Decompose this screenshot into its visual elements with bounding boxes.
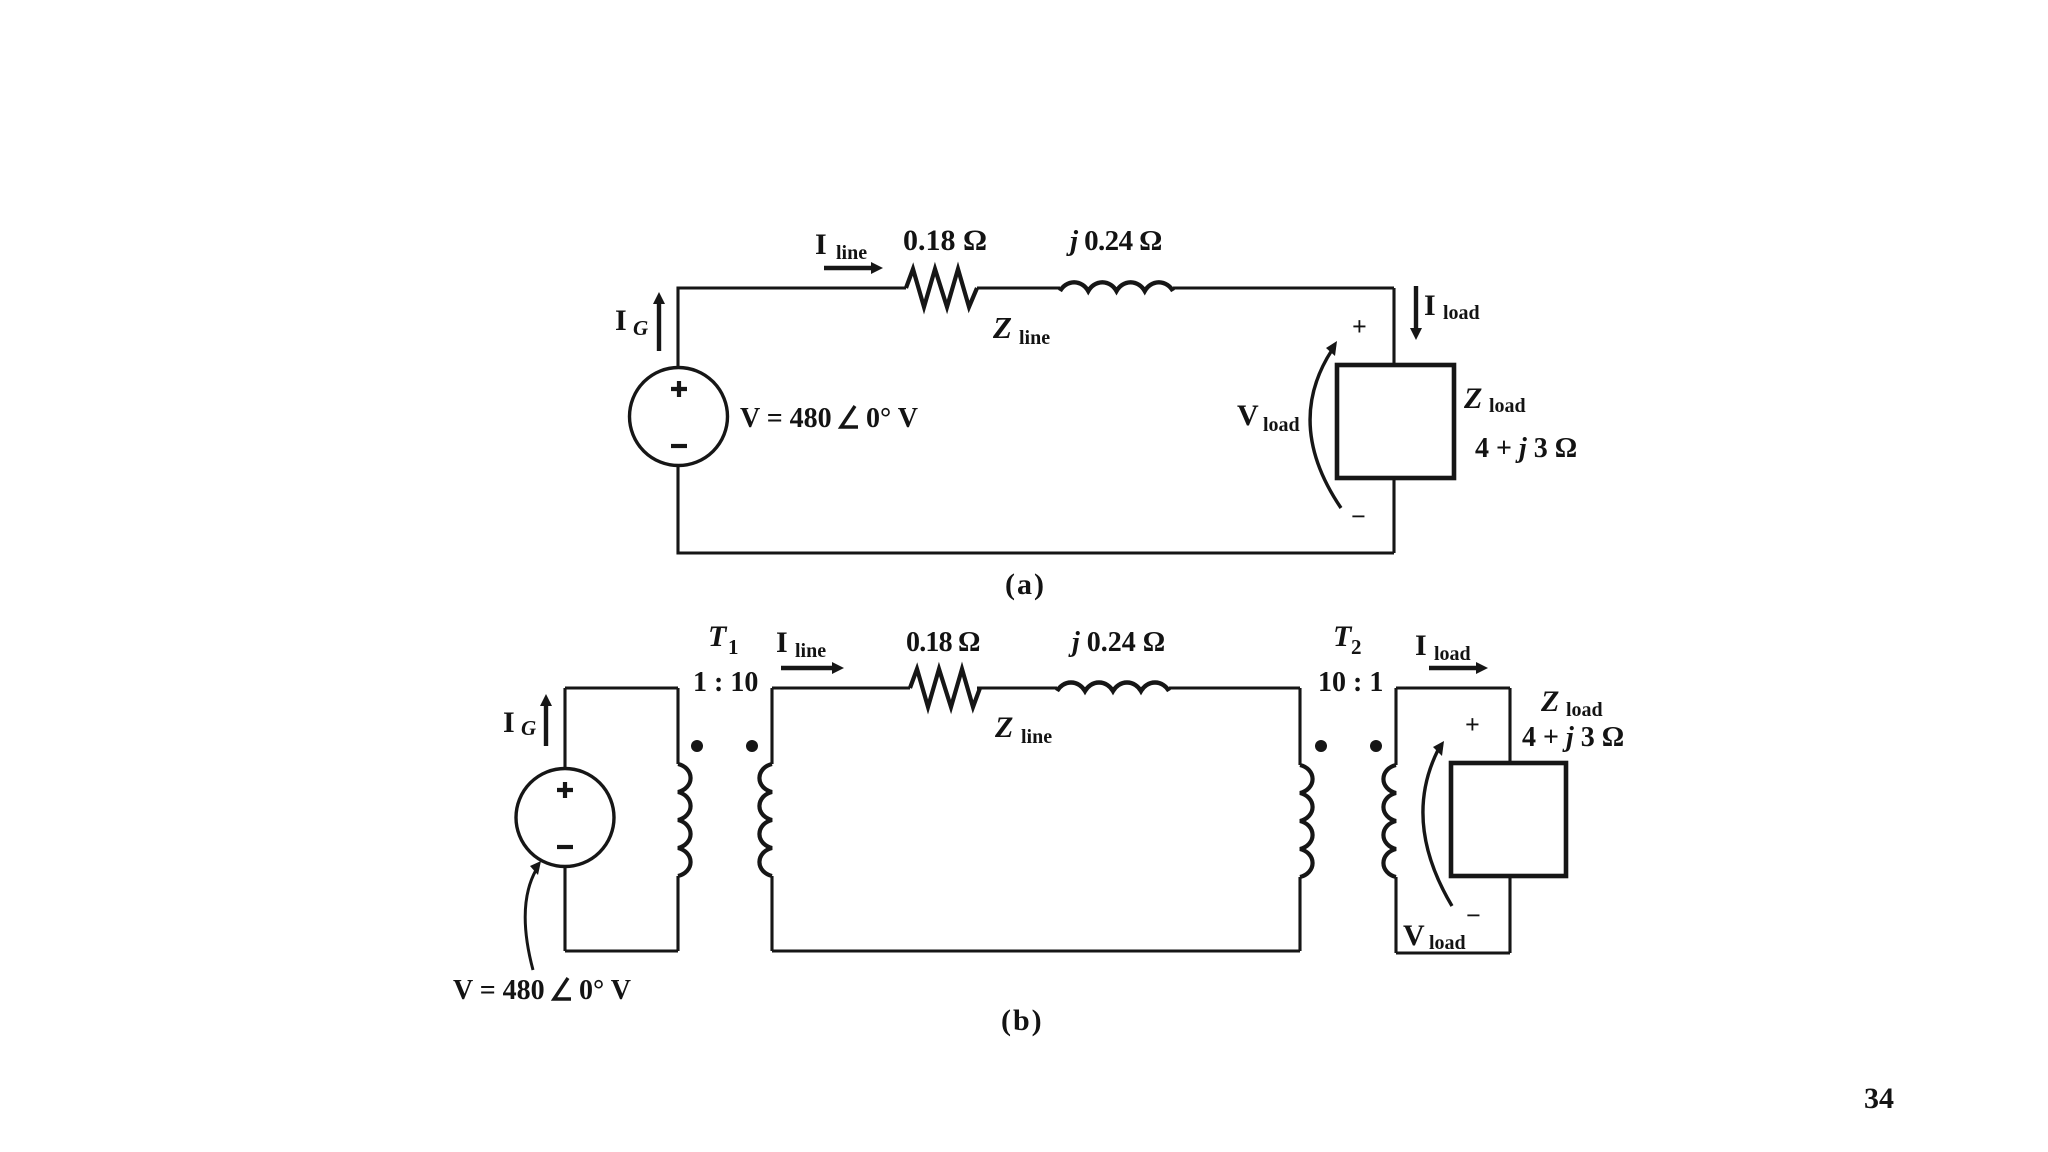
svg-text:load: load <box>1263 414 1300 436</box>
svg-text:I: I <box>503 706 515 739</box>
svg-text:−: − <box>1466 901 1481 930</box>
svg-text:I: I <box>1415 629 1427 662</box>
arrow I_line (b) <box>781 662 844 674</box>
svg-text:Z: Z <box>1540 685 1559 718</box>
svg-text:Z: Z <box>992 310 1012 345</box>
wire: (a) top-left segment from source to resistor <box>678 288 906 368</box>
svg-text:I: I <box>615 304 627 337</box>
wire: (a) segment inductor to top-right corner <box>1173 286 1394 289</box>
svg-text:34: 34 <box>1864 1082 1894 1115</box>
svg-text:line: line <box>795 640 826 662</box>
svg-text:I: I <box>776 626 788 659</box>
load box Z_load (b) <box>1451 763 1566 876</box>
arrow pointer from V=480 label to source (b) <box>525 861 541 970</box>
wire: (b) middle loop top, T1 to resistor <box>772 686 910 689</box>
svg-text:0.18 Ω: 0.18 Ω <box>903 224 987 257</box>
svg-text:−: − <box>1351 502 1366 531</box>
wire: (b) T2 primary vertical above winding <box>1298 688 1301 765</box>
resistor 0.18 ohm (a) <box>906 269 977 307</box>
wire: (a) bottom return wire <box>678 465 1394 553</box>
wire: (b) T1 secondary vertical below winding <box>770 876 773 951</box>
wire: (b) T1 secondary vertical above winding <box>770 688 773 764</box>
svg-text:V: V <box>1237 399 1259 432</box>
arrow I_load (b) <box>1429 662 1488 674</box>
voltage source V (b) <box>516 769 614 867</box>
svg-text:line: line <box>1019 327 1050 349</box>
svg-text:0° V: 0° V <box>579 975 631 1006</box>
wire: (a) segment resistor to inductor <box>977 286 1060 289</box>
wire: (b) segment inductor to T2 <box>1169 686 1300 689</box>
wire: (b) load loop top <box>1396 686 1510 689</box>
wire: (b) source loop bottom <box>565 949 678 952</box>
svg-text:load: load <box>1566 699 1603 721</box>
transformer T1 secondary winding <box>759 764 772 876</box>
arrow arc V_load (a) <box>1310 341 1341 508</box>
svg-text:Z: Z <box>994 711 1013 744</box>
svg-text:+: + <box>1352 312 1367 341</box>
arrow I_load (a) <box>1410 286 1422 340</box>
wire: (b) load loop bottom <box>1396 951 1510 954</box>
dot T1 primary polarity <box>691 740 703 752</box>
svg-text:0.18 Ω: 0.18 Ω <box>906 627 980 658</box>
svg-text:line: line <box>836 242 867 264</box>
voltage source V (a) <box>630 368 728 466</box>
svg-text:1 : 10: 1 : 10 <box>693 667 758 698</box>
dot T2 secondary polarity <box>1370 740 1382 752</box>
svg-text:load: load <box>1489 395 1526 417</box>
svg-text:(b): (b) <box>1001 1004 1044 1037</box>
arrow I_line (a) <box>824 262 883 274</box>
inductor j0.24 ohm (b) <box>1057 683 1169 691</box>
svg-text:I: I <box>1424 289 1436 322</box>
dot T2 primary polarity <box>1315 740 1327 752</box>
wire: (b) T2 primary vertical below winding <box>1298 877 1301 951</box>
svg-text:V: V <box>1403 919 1425 952</box>
wire: (b) source loop left above source <box>563 688 566 769</box>
svg-text:Z: Z <box>1463 382 1482 415</box>
inductor j0.24 ohm (a) <box>1060 282 1173 291</box>
wire: (a) right vertical into load <box>1392 288 1395 553</box>
wire: (b) source loop left below source <box>563 866 566 951</box>
svg-text:line: line <box>1021 726 1052 748</box>
svg-text:j 0.24 Ω: j 0.24 Ω <box>1068 627 1165 658</box>
wire: (b) load loop right vertical <box>1508 688 1511 953</box>
arrow arc V_load (b) <box>1423 741 1452 906</box>
dot T1 secondary polarity <box>746 740 758 752</box>
svg-text:j 0.24 Ω: j 0.24 Ω <box>1066 225 1162 257</box>
svg-text:4 + j 3 Ω: 4 + j 3 Ω <box>1522 722 1624 753</box>
svg-text:T: T <box>1333 620 1353 653</box>
wire: (b) middle loop bottom <box>772 949 1300 952</box>
transformer T2 primary winding <box>1300 765 1313 877</box>
svg-text:T: T <box>708 620 728 653</box>
svg-text:2: 2 <box>1351 635 1362 659</box>
resistor 0.18 ohm (b) <box>910 669 980 707</box>
wire: (b) T2 secondary vertical above winding <box>1394 688 1397 765</box>
wire: (b) source loop top <box>565 686 678 689</box>
transformer T1 primary winding <box>678 764 691 876</box>
transformer T2 secondary winding <box>1383 765 1396 877</box>
svg-text:load: load <box>1434 643 1471 665</box>
arrow I_G (a) <box>653 292 665 351</box>
wire: (b) T1 primary vertical above winding <box>676 688 679 764</box>
svg-text:1: 1 <box>728 635 739 659</box>
arrow I_G (b) <box>540 694 552 746</box>
svg-text:G: G <box>633 316 648 340</box>
svg-text:+: + <box>1465 710 1480 739</box>
svg-text:G: G <box>521 716 536 740</box>
svg-text:load: load <box>1429 932 1466 954</box>
wire: (b) T1 primary vertical below winding <box>676 876 679 951</box>
svg-text:0° V: 0° V <box>866 403 918 434</box>
svg-text:(a): (a) <box>1005 568 1046 601</box>
svg-text:10 : 1: 10 : 1 <box>1318 667 1383 698</box>
load box Z_load (a) <box>1337 365 1454 478</box>
svg-text:V = 480: V = 480 <box>453 975 545 1006</box>
wire: (b) segment resistor to inductor <box>977 686 1057 689</box>
svg-text:V = 480: V = 480 <box>740 403 832 434</box>
svg-text:load: load <box>1443 302 1480 324</box>
svg-text:I: I <box>815 228 827 261</box>
svg-text:4 + j 3 Ω: 4 + j 3 Ω <box>1475 433 1577 464</box>
wire: (b) T2 secondary vertical below winding <box>1394 877 1397 953</box>
